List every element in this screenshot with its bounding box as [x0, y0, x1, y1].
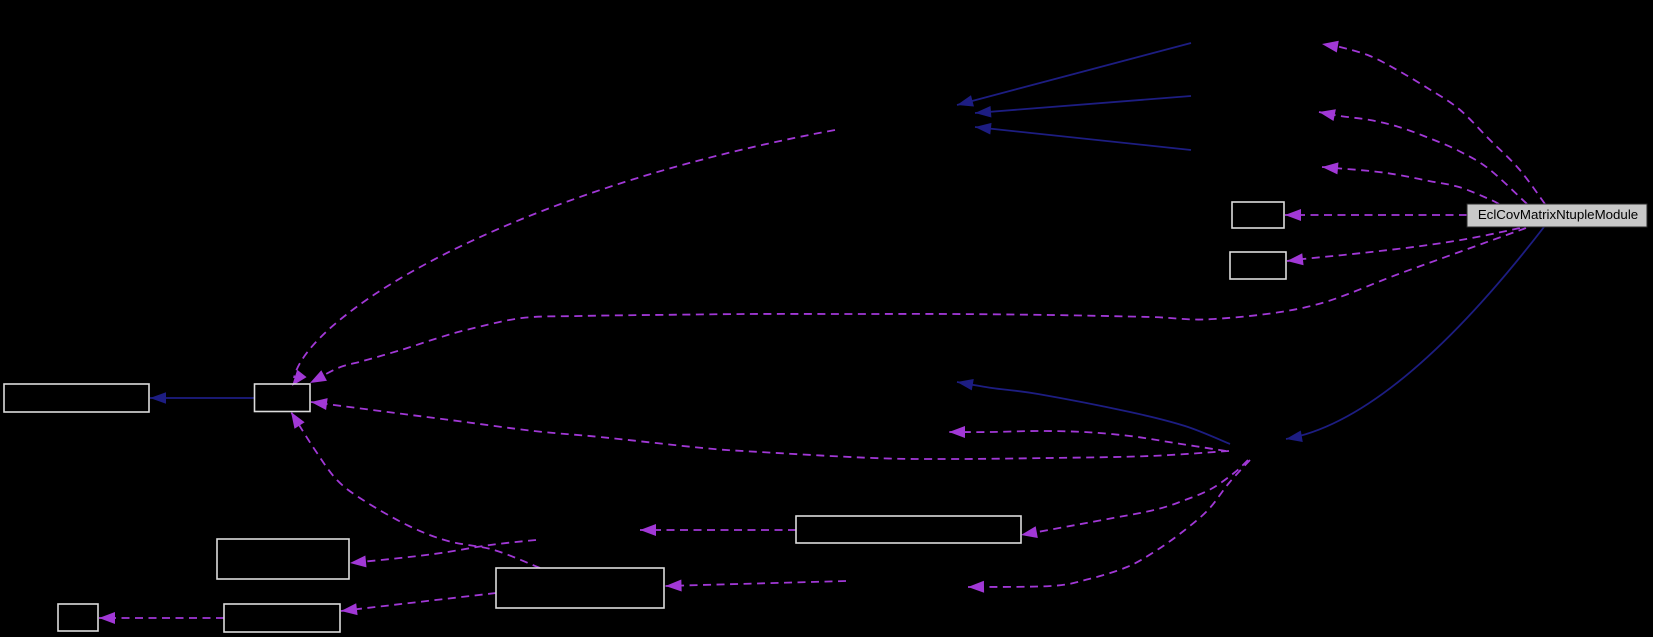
- wire: solid navy edge EclCovMatrixNtupleModule to node Nc: [1286, 227, 1544, 439]
- wire: solid navy edge N2 to Na: [975, 96, 1191, 113]
- wire: solid navy edge N1 to Na: [957, 43, 1191, 105]
- wire: dashed edge node N9 to box B8: [666, 581, 847, 586]
- wire: dashed edge EclCovMatrixNtupleModule to N1: [1322, 44, 1545, 204]
- svg-text:EclCovMatrixNtupleModule: EclCovMatrixNtupleModule: [1478, 207, 1638, 222]
- wire: dashed edge EclCovMatrixNtupleModule to N3: [1322, 167, 1499, 204]
- node B8: [496, 568, 664, 608]
- wire: dashed edge node Nc to node N9: [968, 460, 1250, 587]
- wire: dashed edge EclCovMatrixNtupleModule to box B3: [1285, 214, 1467, 216]
- node B7: [224, 604, 340, 632]
- wire: dashed edge box B8 to box B7: [341, 593, 496, 611]
- wire: dashed edge node Nc to node Nd: [949, 431, 1226, 451]
- wire: dashed edge box B7 to box B9: [99, 617, 224, 619]
- wire: solid navy edge node Nc to node Nb: [957, 382, 1230, 444]
- node B4: [1230, 252, 1286, 279]
- wire: dashed edge EclCovMatrixNtupleModule to N2: [1319, 112, 1527, 204]
- wire: solid navy edge node B2 to node B1: [150, 397, 254, 399]
- wire: dashed edge node Nc to box B10: [1021, 460, 1248, 535]
- node B9: [58, 604, 98, 631]
- node EclCovMatrixNtupleModule: [1467, 204, 1647, 227]
- node B3: [1232, 202, 1284, 228]
- wire: dashed edge from node B8 to node B2 bottom edge: [291, 412, 540, 568]
- wire: solid navy edge N3 to Na: [975, 127, 1191, 150]
- node B1: [4, 384, 149, 412]
- wire: long dashed edge from EclCovMatrixNtupleModule to node B2 top-right corner: [310, 228, 1526, 383]
- wire: dashed edge from node Na to node B2 (top arc): [294, 130, 835, 378]
- wire: long dashed edge from node Nc to node B2 right edge: [311, 402, 1229, 459]
- node B10: [796, 516, 1021, 543]
- wire: dashed edge node N8 to box B6: [350, 540, 536, 563]
- node B6: [217, 539, 349, 579]
- node B2: [255, 384, 311, 412]
- wire: dashed edge box B10 to node N8: [640, 529, 796, 531]
- wire: dashed edge EclCovMatrixNtupleModule to box B4: [1287, 228, 1520, 261]
